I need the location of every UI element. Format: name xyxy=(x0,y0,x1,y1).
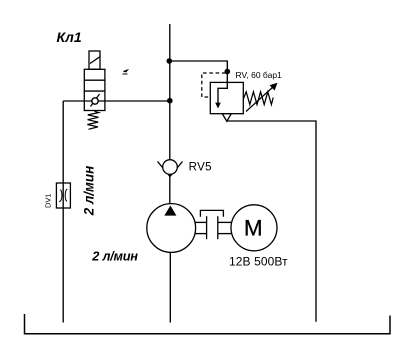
svg-text:2 л/мин: 2 л/мин xyxy=(91,249,138,264)
valve Кл1 solenoid box xyxy=(89,51,100,69)
svg-text:M: M xyxy=(244,215,263,240)
flow control DV1 box xyxy=(56,183,70,208)
coupling bar right xyxy=(217,216,219,239)
wire branch to relief valve xyxy=(170,61,228,82)
coupling shaft right xyxy=(218,221,232,223)
wire pilot dashed line xyxy=(202,73,226,97)
valve Кл1 orifice diagonal xyxy=(91,94,100,107)
relief valve adjustment arrow xyxy=(246,87,274,112)
wire left drop to tank xyxy=(62,101,64,323)
valve Кл1 return spring xyxy=(87,111,98,129)
coupling bracket xyxy=(200,210,223,216)
svg-text:RV, 60 бар1: RV, 60 бар1 xyxy=(236,70,283,80)
relief valve RV body xyxy=(210,82,243,113)
svg-text:Кл1: Кл1 xyxy=(57,29,82,45)
relief valve RV internal flow arrow xyxy=(218,82,227,103)
wire pump to tank xyxy=(169,252,171,322)
valve Кл1 body divider 2 xyxy=(84,90,105,92)
node junction dot A xyxy=(167,58,173,64)
relief valve drain triangle xyxy=(222,114,231,122)
svg-text:12В 500Вт: 12В 500Вт xyxy=(229,254,288,268)
valve Кл1 body xyxy=(84,69,105,110)
wire valve through-line xyxy=(63,100,170,102)
valve Кл1 solenoid diagonal xyxy=(90,57,100,64)
check valve RV5 ball xyxy=(163,160,178,175)
svg-text:DV1: DV1 xyxy=(44,193,53,208)
pump P circle xyxy=(147,204,196,253)
flow control DV1 throttle curves xyxy=(59,190,62,202)
svg-text:2 л/мин: 2 л/мин xyxy=(82,166,97,216)
small mark artifact xyxy=(123,70,128,74)
valve Кл1 orifice circle xyxy=(92,98,98,104)
wire relief valve outlet to tank xyxy=(227,121,316,322)
wire main supply vertical xyxy=(169,24,171,204)
tank xyxy=(25,314,391,334)
valve Кл1 body divider 1 xyxy=(84,79,105,81)
check valve RV5 seat xyxy=(158,162,183,177)
coupling shaft left xyxy=(195,221,207,223)
node junction dot C xyxy=(167,98,173,104)
coupling bar left xyxy=(206,216,208,239)
relief valve spring xyxy=(244,92,274,105)
node junction dot B xyxy=(225,69,231,75)
svg-text:RV5: RV5 xyxy=(189,161,212,173)
pump P triangle xyxy=(164,206,176,216)
motor M circle xyxy=(231,205,277,251)
